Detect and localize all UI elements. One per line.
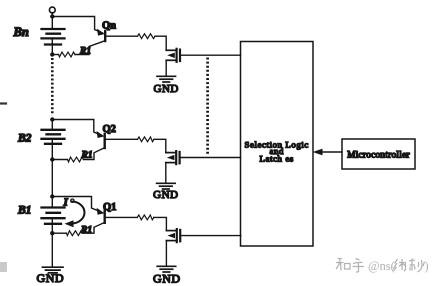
ground GND2 xyxy=(157,183,176,189)
wire resistor to M3 xyxy=(154,217,167,230)
node B1t (B2 +) xyxy=(50,117,54,121)
transistor Q1 emitter arrow xyxy=(97,208,105,215)
ground GND4 xyxy=(43,267,64,273)
wire M1 source to ground xyxy=(165,60,167,75)
svg-text:GND: GND xyxy=(153,189,178,201)
svg-text:Latch es: Latch es xyxy=(260,153,294,163)
dotted continuation channel bus xyxy=(206,58,209,156)
svg-text:GND: GND xyxy=(154,83,179,95)
svg-text:R1: R1 xyxy=(81,151,93,161)
wire B1 - stub xyxy=(51,218,53,233)
wire Bn minus stub xyxy=(51,38,53,52)
wire M2 drain to selection box xyxy=(180,157,241,159)
wire B1- to ground xyxy=(51,233,53,266)
battery B1 xyxy=(42,208,65,224)
svg-text:I: I xyxy=(63,197,69,209)
svg-text:Microcontroller: Microcontroller xyxy=(347,150,410,160)
resistor (gate, row 2) xyxy=(138,137,155,142)
resistor R1 (row 2) xyxy=(68,157,84,162)
wire Q1 to gate resistor xyxy=(106,216,138,218)
current loop start circle xyxy=(71,199,74,202)
battery Bn xyxy=(42,29,65,45)
wire Q2 to gate resistor xyxy=(106,138,138,140)
resistor (gate, row 1) xyxy=(138,34,156,39)
wire M1 drain to selection box xyxy=(180,54,241,56)
svg-text:GND: GND xyxy=(153,272,181,286)
node A1 (Bn +) xyxy=(50,14,54,18)
wire B2 - stub xyxy=(51,139,53,160)
ground GND3 xyxy=(157,266,176,272)
wire terminal to node xyxy=(51,13,53,29)
wire resistor to M1 xyxy=(155,36,166,50)
battery B2 xyxy=(42,130,65,144)
svg-text:Q2: Q2 xyxy=(103,124,116,135)
ground GND1 xyxy=(157,76,176,82)
arrowhead U2 to U1 xyxy=(313,149,323,156)
wire B2- to B1+ xyxy=(51,160,53,208)
edge artifact left middle xyxy=(0,102,6,104)
wire R1 to node C1b xyxy=(52,232,66,234)
transistor Q2 emitter arrow xyxy=(97,131,105,138)
watermark zhihu xyxy=(336,259,429,274)
mosfet M3 xyxy=(166,229,180,242)
selection logic block U1 xyxy=(241,42,314,247)
current loop arrow I xyxy=(72,202,85,224)
wire Qn to gate resistor xyxy=(106,35,138,37)
wire U2 to U1 xyxy=(321,151,343,153)
current loop arrowhead xyxy=(65,220,74,227)
transistor Qn base bar xyxy=(104,31,106,41)
svg-text:Qn: Qn xyxy=(102,21,116,32)
svg-text:B1: B1 xyxy=(17,205,31,217)
mosfet M1 xyxy=(166,49,180,62)
transistor Qn emitter arrow xyxy=(97,29,105,36)
dotted continuation below Bn xyxy=(51,58,54,116)
mosfet M2 xyxy=(166,151,180,164)
wire B2 + stub xyxy=(51,120,53,130)
wire R1 to node A2 xyxy=(52,54,58,56)
node C1t (B1 +) xyxy=(50,194,54,198)
svg-text:R1: R1 xyxy=(79,47,91,57)
edge artifact left bottom xyxy=(0,262,7,272)
node A2 (Bn -) xyxy=(50,52,54,56)
wire resistor to M2 xyxy=(154,139,166,152)
wire M3 drain to selection box xyxy=(180,235,241,237)
resistor R1 (row 3) xyxy=(66,231,82,236)
wire M2 source to ground xyxy=(165,163,167,182)
glyph na xyxy=(394,259,406,271)
wire R1 to node B2b xyxy=(52,159,67,161)
wire M3 source to ground xyxy=(165,241,167,265)
glyph miao xyxy=(409,259,425,273)
glyph zhi xyxy=(336,259,350,271)
svg-text:Bn: Bn xyxy=(13,25,29,39)
wire Bn+ to Qn collector xyxy=(52,17,102,34)
resistor R1 (row 1) xyxy=(59,52,76,57)
svg-text:GND: GND xyxy=(37,271,65,285)
node B2b (B2 -) xyxy=(50,157,54,161)
transistor Qn base lead xyxy=(75,41,105,55)
transistor Q2 base lead xyxy=(84,148,105,160)
svg-text:B2: B2 xyxy=(17,133,32,145)
wire B1+ to Q1 collector xyxy=(52,197,101,213)
glyph hu xyxy=(353,259,365,273)
wire B2+ to Q2 collector xyxy=(52,120,102,136)
terminal circle top of Bn xyxy=(49,7,55,13)
svg-text:): ) xyxy=(425,259,429,273)
svg-text:Q1: Q1 xyxy=(103,202,116,213)
resistor (gate, row 3) xyxy=(137,215,154,220)
svg-text:@ns(: @ns( xyxy=(368,259,395,273)
transistor Q2 base bar xyxy=(103,134,105,148)
svg-text:R1: R1 xyxy=(80,226,92,236)
node C1b (B1 -) xyxy=(50,231,54,235)
transistor Q1 base bar xyxy=(103,210,105,223)
microcontroller block U2 xyxy=(342,139,415,169)
transistor Q1 base lead xyxy=(82,223,104,234)
